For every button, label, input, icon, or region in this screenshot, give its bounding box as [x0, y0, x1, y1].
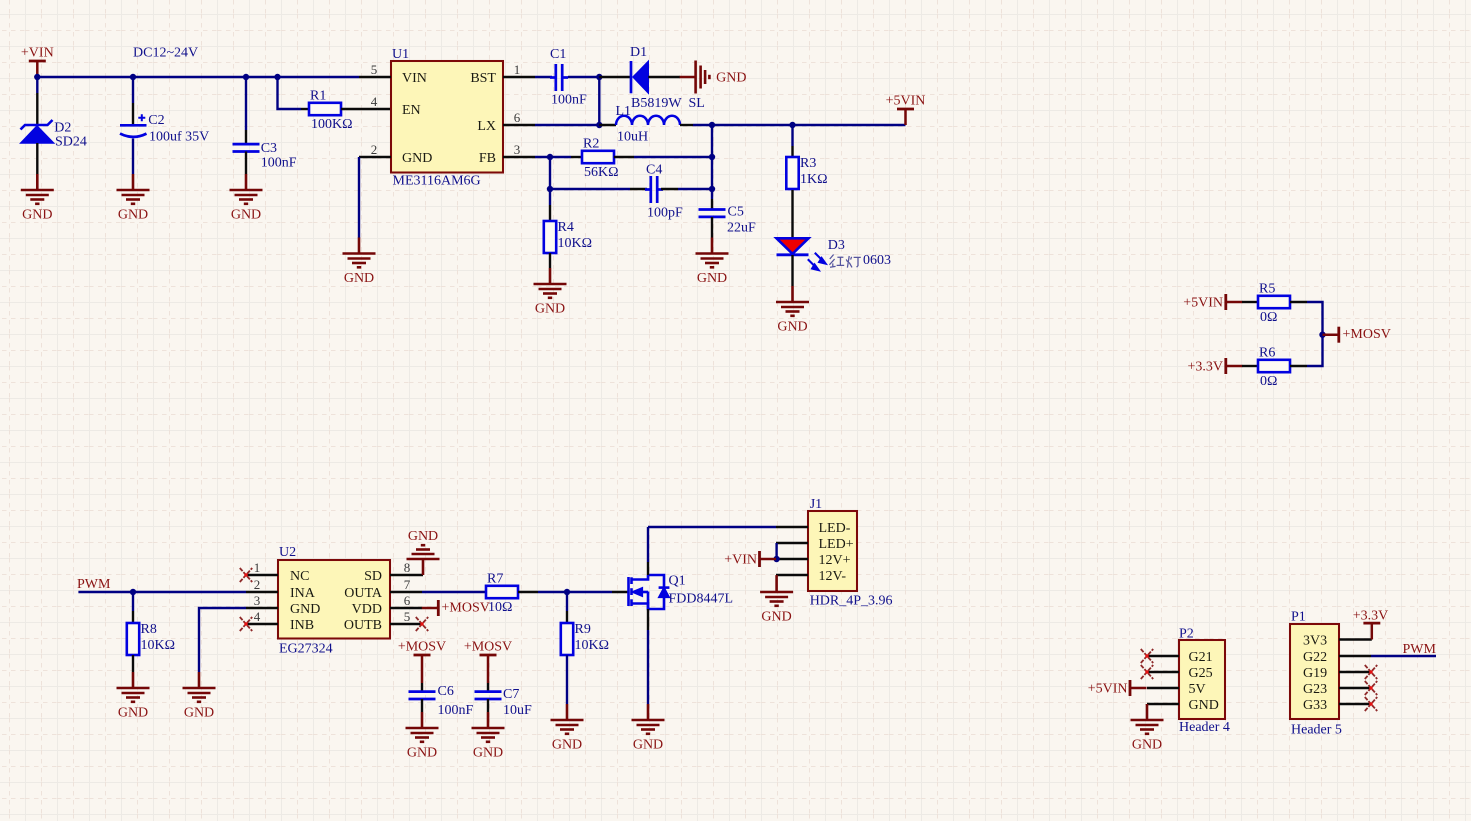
resistor R3 1K	[786, 156, 827, 189]
pin P2.3 5V	[1147, 687, 1179, 689]
power port +MOSV at C7	[464, 639, 512, 671]
pin R2	[571, 156, 582, 158]
svg-text:GND: GND	[22, 208, 52, 223]
junction	[709, 186, 715, 192]
svg-text:GND: GND	[407, 746, 437, 761]
wire PWM	[1371, 655, 1436, 657]
svg-text:R4: R4	[558, 220, 574, 235]
pin D3 cathode	[791, 255, 793, 286]
svg-text:+MOSV: +MOSV	[464, 639, 512, 654]
svg-text:GND: GND	[633, 738, 663, 753]
svg-text:C5: C5	[728, 204, 744, 219]
svg-text:GND: GND	[290, 602, 320, 617]
svg-text:C6: C6	[438, 684, 454, 699]
ground	[343, 238, 376, 287]
pin U2.8 SD	[390, 574, 423, 576]
svg-text:+5VIN: +5VIN	[1088, 682, 1128, 697]
wire R1 to U1 pin 4	[341, 108, 391, 110]
junction	[773, 556, 779, 562]
D3 value label: red-LED 0603	[829, 255, 860, 268]
pin C3	[245, 152, 247, 175]
ground	[117, 672, 150, 721]
svg-text:LED+: LED+	[819, 537, 854, 552]
svg-text:INB: INB	[290, 618, 314, 633]
svg-text:Header 4: Header 4	[1179, 720, 1230, 735]
resistor R2 56K	[582, 137, 619, 181]
pin Q1 gate	[612, 591, 629, 593]
power port +5VIN	[886, 93, 926, 125]
pin P2.1 G21	[1147, 655, 1179, 657]
pin U2.7 OUTA	[390, 591, 422, 593]
svg-text:SL: SL	[689, 96, 705, 111]
no-connect X	[1141, 649, 1153, 663]
svg-text:100nF: 100nF	[261, 155, 297, 170]
junction	[596, 74, 602, 80]
svg-text:22uF: 22uF	[727, 220, 756, 235]
svg-text:Header 5: Header 5	[1291, 723, 1342, 738]
svg-text:BST: BST	[470, 71, 496, 86]
svg-text:GND: GND	[473, 746, 503, 761]
wire LED+ to +VIN	[775, 543, 777, 559]
pin R1	[301, 108, 309, 110]
svg-text:GND: GND	[1132, 738, 1162, 753]
svg-text:4: 4	[371, 94, 378, 109]
svg-text:G25: G25	[1189, 666, 1213, 681]
ground	[760, 576, 793, 625]
junction	[130, 589, 136, 595]
junction	[243, 74, 249, 80]
svg-text:+MOSV: +MOSV	[398, 639, 446, 654]
svg-text:+5VIN: +5VIN	[886, 93, 926, 108]
svg-text:OUTB: OUTB	[344, 618, 382, 633]
ground	[183, 672, 216, 721]
power port +5VIN at P2	[1088, 680, 1147, 697]
svg-text:D3: D3	[828, 238, 845, 253]
pin U2.4 INB	[246, 623, 278, 625]
junction	[709, 122, 715, 128]
wire	[132, 139, 134, 175]
connector P1 Header 5	[1290, 610, 1342, 738]
pin R3 to D3	[791, 190, 793, 238]
svg-text:EN: EN	[402, 103, 421, 118]
power port +3.3V at P1	[1353, 609, 1389, 640]
diode D1 B5819W SL	[630, 45, 705, 111]
pin J1.2 LED+	[776, 542, 808, 544]
svg-text:HDR_4P_3.96: HDR_4P_3.96	[810, 593, 893, 608]
svg-text:0Ω: 0Ω	[1260, 310, 1277, 325]
wire FB down	[549, 157, 551, 205]
power port +3.3V	[1187, 358, 1242, 374]
svg-text:2: 2	[254, 577, 261, 592]
pin D2 cathode lead	[36, 93, 38, 125]
svg-text:1: 1	[514, 62, 521, 77]
svg-text:NC: NC	[290, 569, 309, 584]
pin L1	[599, 124, 616, 126]
pin P1.2 G22	[1339, 655, 1371, 657]
power port +5VIN	[1183, 294, 1242, 311]
pin U2.2 INA	[246, 591, 278, 593]
svg-text:U2: U2	[279, 545, 296, 560]
pin P1.5 G33	[1339, 703, 1371, 705]
power port +VIN at J1	[724, 551, 776, 568]
pin P2.2 G25	[1147, 671, 1179, 673]
ground	[230, 174, 263, 223]
svg-text:R8: R8	[141, 622, 157, 637]
op-amp U1 ME3116AM6G buck converter	[371, 47, 521, 189]
svg-text:VDD: VDD	[352, 602, 382, 617]
diode D2 (TVS SD24)	[21, 120, 87, 150]
pin C7	[487, 683, 489, 691]
svg-text:EG27324: EG27324	[279, 642, 333, 657]
pin P1.1 3V3	[1339, 638, 1372, 640]
pin C7	[487, 699, 489, 712]
svg-text:GND: GND	[716, 71, 746, 86]
ground	[776, 286, 809, 335]
svg-text:LX: LX	[477, 119, 496, 134]
svg-text:+VIN: +VIN	[21, 45, 54, 60]
svg-text:10KΩ: 10KΩ	[558, 236, 593, 251]
svg-text:3: 3	[514, 142, 521, 157]
svg-text:C4: C4	[646, 162, 662, 177]
wire	[245, 77, 247, 130]
pin R3	[791, 146, 793, 156]
svg-text:R5: R5	[1259, 282, 1275, 297]
net label DC12~24V	[133, 46, 198, 61]
wire LX	[535, 124, 599, 126]
svg-text:10uF: 10uF	[503, 703, 532, 718]
pin C5	[711, 217, 713, 238]
svg-text:P1: P1	[1291, 610, 1306, 625]
junction	[34, 74, 40, 80]
wire	[36, 77, 38, 93]
junction	[274, 74, 280, 80]
connector P2 Header 4	[1179, 626, 1230, 735]
pin R2	[614, 156, 634, 158]
svg-text:6: 6	[514, 110, 521, 125]
net label PWM	[77, 577, 111, 592]
net label PWM	[1403, 642, 1437, 657]
ground	[472, 712, 505, 761]
svg-text:10KΩ: 10KΩ	[141, 638, 176, 653]
svg-text:C3: C3	[261, 141, 277, 156]
svg-text:0603: 0603	[863, 253, 891, 268]
svg-text:5: 5	[404, 609, 411, 624]
power port +MOSV at C6	[398, 639, 446, 671]
pin R6	[1242, 365, 1258, 367]
ground	[406, 712, 439, 761]
pin Q1 drain	[647, 562, 649, 575]
ground	[632, 704, 665, 753]
pin U1.6 LX	[503, 124, 535, 126]
ground	[407, 529, 440, 575]
pin D1 anode	[648, 76, 680, 78]
svg-text:GND: GND	[697, 271, 727, 286]
svg-text:DC12~24V: DC12~24V	[133, 46, 198, 61]
svg-text:R6: R6	[1259, 346, 1275, 361]
svg-text:12V-: 12V-	[819, 569, 847, 584]
svg-text:+VIN: +VIN	[724, 553, 757, 568]
pin C5	[711, 199, 713, 209]
wire	[535, 76, 552, 78]
junction	[789, 122, 795, 128]
pin U2.1 NC	[246, 574, 278, 576]
wire U2 GND	[199, 608, 246, 672]
svg-text:+MOSV: +MOSV	[1343, 327, 1391, 342]
pin U1.2 GND	[359, 156, 391, 158]
power port +VIN	[21, 45, 54, 77]
capacitor C2 (polarized 100uf 35V)	[120, 114, 147, 137]
pin J1.3 12V+	[777, 558, 808, 560]
svg-text:GND: GND	[408, 529, 438, 544]
svg-text:GND: GND	[402, 151, 432, 166]
svg-text:10uH: 10uH	[617, 130, 648, 145]
op-amp U2 EG27324 gate driver	[254, 545, 411, 657]
svg-text:SD: SD	[364, 569, 382, 584]
wire	[634, 156, 712, 158]
ground	[696, 238, 729, 287]
resistor R6 0ohm	[1258, 346, 1290, 390]
wire +5VIN net	[693, 124, 906, 126]
pin U2.6 VDD	[390, 607, 422, 609]
svg-text:PWM: PWM	[1403, 642, 1437, 657]
svg-text:+3.3V: +3.3V	[1353, 609, 1389, 624]
pin Q1 source	[647, 609, 649, 630]
pin D1 cathode	[599, 76, 631, 78]
svg-text:FB: FB	[479, 151, 496, 166]
pin C6	[421, 699, 423, 712]
no-connect X	[240, 568, 252, 582]
junction	[1319, 332, 1325, 338]
capacitor C3 plates	[233, 144, 260, 151]
pin D2 anode lead	[36, 143, 38, 174]
wire OUTA	[422, 591, 486, 593]
junction	[547, 186, 553, 192]
wire to R1	[278, 77, 302, 109]
svg-text:5V: 5V	[1189, 682, 1206, 697]
svg-text:100nF: 100nF	[551, 93, 587, 108]
ground	[534, 268, 567, 317]
pin U2.3 GND	[246, 607, 278, 609]
pin C4	[661, 188, 678, 190]
svg-text:C7: C7	[503, 687, 519, 702]
svg-text:G19: G19	[1303, 666, 1327, 681]
svg-text:100KΩ: 100KΩ	[311, 117, 353, 132]
svg-text:VIN: VIN	[402, 71, 427, 86]
pin R8	[132, 655, 134, 672]
svg-text:GND: GND	[535, 302, 565, 317]
svg-text:5: 5	[371, 62, 378, 77]
svg-text:B5819W: B5819W	[631, 96, 682, 111]
svg-text:7: 7	[404, 577, 411, 592]
svg-text:R1: R1	[310, 89, 326, 104]
wire BST to LX	[598, 77, 600, 125]
pin U2.5 OUTB	[390, 623, 422, 625]
svg-text:U1: U1	[392, 47, 409, 62]
no-connect X	[1365, 665, 1377, 679]
wire R5/R6 to +MOSV	[1307, 302, 1323, 366]
pin P1.3 G19	[1339, 671, 1371, 673]
svg-text:OUTA: OUTA	[344, 586, 383, 601]
svg-text:Q1: Q1	[669, 574, 686, 589]
capacitor C7 plates	[475, 692, 502, 699]
pin P2.4 GND	[1147, 703, 1179, 705]
wire	[568, 76, 599, 78]
svg-text:3V3: 3V3	[1303, 634, 1327, 649]
wire U1 GND	[358, 157, 360, 238]
svg-text:+5VIN: +5VIN	[1183, 296, 1223, 311]
no-connect X	[1141, 665, 1153, 679]
wire +VIN bus	[37, 76, 359, 78]
resistor R1 100K	[309, 89, 353, 133]
svg-text:8: 8	[404, 560, 411, 575]
svg-text:R7: R7	[487, 572, 503, 587]
svg-text:C2: C2	[148, 113, 164, 128]
svg-text:D1: D1	[630, 45, 647, 60]
svg-text:1KΩ: 1KΩ	[800, 172, 828, 187]
pin R4	[549, 205, 551, 221]
wire	[421, 671, 424, 683]
svg-text:+MOSV: +MOSV	[442, 600, 490, 615]
wire	[566, 655, 568, 704]
svg-text:L1: L1	[616, 104, 632, 119]
ground	[1131, 704, 1164, 753]
wire Q1 drain	[647, 527, 649, 562]
junction	[596, 122, 602, 128]
svg-text:G33: G33	[1303, 698, 1327, 713]
wire LED-	[648, 526, 776, 528]
pin R9	[566, 611, 568, 623]
capacitor C5 plates	[699, 210, 726, 217]
svg-text:10Ω: 10Ω	[488, 600, 512, 615]
svg-text:GND: GND	[118, 208, 148, 223]
svg-text:6: 6	[404, 593, 411, 608]
wire	[487, 671, 490, 683]
no-connect X	[1365, 697, 1377, 711]
svg-text:GND: GND	[184, 706, 214, 721]
svg-text:3: 3	[254, 593, 261, 608]
wire LX down to C5	[711, 125, 713, 199]
svg-text:G22: G22	[1303, 650, 1327, 665]
pin R8	[132, 611, 134, 623]
connector J1 HDR_4P_3.96	[808, 497, 893, 609]
pin R7	[518, 591, 538, 593]
ground	[117, 174, 150, 223]
wire to Q1 gate	[538, 591, 612, 593]
no-connect X	[416, 617, 428, 631]
capacitor C1 plates	[550, 64, 568, 91]
inductor L1 10uH	[616, 104, 681, 145]
pin C3	[245, 130, 247, 143]
capacitor C6 plates	[409, 692, 436, 699]
pin R5	[1290, 301, 1307, 303]
svg-text:G23: G23	[1303, 682, 1327, 697]
power port +MOSV at U2.6	[422, 600, 490, 616]
svg-text:1: 1	[254, 560, 261, 575]
svg-text:D2: D2	[54, 121, 71, 136]
svg-text:LED-: LED-	[819, 521, 851, 536]
pin P1.4 G23	[1339, 687, 1371, 689]
svg-text:ME3116AM6G: ME3116AM6G	[393, 174, 481, 189]
ground	[21, 174, 54, 223]
power port +MOSV	[1323, 327, 1391, 343]
resistor R4 10K	[544, 220, 592, 253]
resistor R9 10K	[561, 622, 609, 655]
pin J1.1 LED-	[776, 526, 808, 528]
ground	[680, 61, 747, 94]
svg-text:INA: INA	[290, 586, 316, 601]
ground	[551, 704, 584, 753]
resistor R5 0ohm	[1258, 282, 1290, 326]
svg-text:GND: GND	[761, 610, 791, 625]
svg-text:SD24: SD24	[55, 135, 87, 150]
wire	[647, 630, 649, 704]
svg-text:2: 2	[371, 142, 378, 157]
svg-text:GND: GND	[777, 320, 807, 335]
pin C6	[421, 683, 423, 691]
pin C2	[132, 103, 134, 124]
pin R4	[549, 253, 551, 268]
capacitor C4 plates	[645, 176, 663, 203]
no-connect X	[1365, 681, 1377, 695]
svg-text:GND: GND	[344, 271, 374, 286]
svg-text:10KΩ: 10KΩ	[575, 638, 610, 653]
svg-text:0Ω: 0Ω	[1260, 374, 1277, 389]
pin J1.4 12V-	[776, 574, 808, 576]
wire	[132, 592, 134, 611]
svg-text:+3.3V: +3.3V	[1187, 359, 1223, 374]
wire PWM	[78, 591, 246, 593]
wire	[775, 575, 777, 576]
junction	[130, 74, 136, 80]
pin C4	[630, 188, 647, 190]
wire C4 row	[550, 188, 630, 190]
wire	[132, 77, 134, 103]
junction	[709, 154, 715, 160]
svg-text:GND: GND	[552, 738, 582, 753]
resistor R7 10ohm	[486, 572, 518, 616]
svg-text:100nF: 100nF	[438, 703, 474, 718]
pin R5	[1242, 301, 1258, 303]
resistor R8 10K	[127, 622, 175, 655]
pin L1	[680, 124, 693, 126]
junction	[547, 154, 553, 160]
no-connect X	[240, 617, 252, 631]
pin R6	[1290, 365, 1307, 367]
svg-text:C1: C1	[550, 47, 566, 62]
svg-text:56KΩ: 56KΩ	[584, 165, 619, 180]
wire	[678, 188, 712, 190]
wire	[566, 592, 568, 611]
pin U1.5 VIN	[359, 76, 391, 78]
svg-text:GND: GND	[231, 208, 261, 223]
svg-text:G21: G21	[1189, 650, 1213, 665]
diode D3 red LED 0603	[777, 238, 845, 270]
svg-text:P2: P2	[1179, 626, 1194, 641]
svg-text:PWM: PWM	[77, 577, 111, 592]
svg-text:4: 4	[254, 609, 261, 624]
junction	[564, 589, 570, 595]
svg-text:12V+: 12V+	[819, 553, 851, 568]
wire FB	[535, 156, 571, 158]
wire	[791, 125, 793, 146]
svg-text:J1: J1	[810, 497, 822, 512]
svg-text:100pF: 100pF	[647, 206, 683, 221]
svg-text:FDD8447L: FDD8447L	[669, 592, 734, 607]
svg-text:GND: GND	[1189, 698, 1219, 713]
pin U1.1 BST	[503, 76, 535, 78]
svg-text:R2: R2	[583, 137, 599, 152]
svg-text:R3: R3	[800, 156, 816, 171]
